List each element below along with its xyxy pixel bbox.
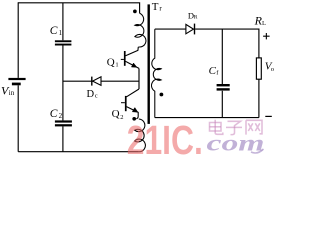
svg-text:T: T bbox=[152, 1, 159, 13]
svg-text:c: c bbox=[95, 92, 98, 99]
svg-text:R: R bbox=[194, 15, 198, 21]
svg-text:2: 2 bbox=[120, 114, 123, 121]
svg-text:f: f bbox=[216, 69, 219, 76]
svg-text:2: 2 bbox=[59, 112, 63, 120]
svg-text:in: in bbox=[9, 89, 15, 97]
svg-text:D: D bbox=[87, 89, 95, 100]
svg-text:Q: Q bbox=[107, 57, 115, 69]
svg-text:C: C bbox=[50, 25, 58, 37]
svg-text:Q: Q bbox=[112, 108, 120, 120]
svg-text:1: 1 bbox=[59, 29, 63, 37]
svg-text:21IC.: 21IC. bbox=[127, 117, 203, 162]
svg-text:1: 1 bbox=[115, 61, 118, 68]
svg-text:o: o bbox=[271, 66, 274, 73]
svg-text:C: C bbox=[50, 108, 58, 120]
svg-text:L: L bbox=[262, 20, 266, 27]
svg-text:r: r bbox=[159, 4, 162, 12]
